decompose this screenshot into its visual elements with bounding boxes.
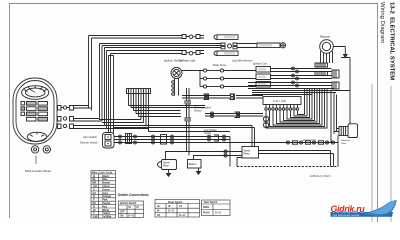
svg-text:для любителей техники: для любителей техники [333,214,360,217]
svg-text:Ignition Switch: Ignition Switch [120,202,137,205]
relay block 2 [256,74,271,80]
wire color code text [92,170,113,218]
meter connector row1 [58,106,92,111]
svg-text:PUSH: PUSH [203,213,210,215]
magneto connector comb 2 [332,70,339,89]
svg-text:Dimmer Switch: Dimmer Switch [80,141,98,145]
starter button table [202,200,231,216]
svg-text:Purple: Purple [102,201,111,205]
svg-text:OFF: OFF [120,211,125,213]
fuse 2 [200,71,256,87]
inline connector b [126,134,132,144]
ignition lead connectors [172,81,175,96]
svg-text:Ignition Coil: Ignition Coil [253,62,267,66]
svg-text:Valve: Valve [341,143,347,145]
headlight lamp row1 [214,35,238,40]
ignition switch table [119,201,144,218]
svg-text:Orange: Orange [102,194,112,198]
ignition coil row [230,141,338,144]
svg-text:G: G [93,187,95,191]
brake switch connectors on wires [208,135,226,141]
svg-text:13-2 ELECTRICAL SYSTEM: 13-2 ELECTRICAL SYSTEM [389,2,395,80]
solenoid valve body [348,124,358,138]
svg-text:M: M [137,207,139,209]
svg-text:Red: Red [102,204,107,208]
ignition switch [171,68,182,96]
svg-text:Y: Y [93,211,95,215]
ignition feed pair down [185,88,191,156]
harness fan wires [99,106,230,132]
svg-text:Solenoid: Solenoid [341,140,350,142]
svg-text:ON: ON [120,216,124,218]
svg-text:BL: BL [93,177,97,181]
inline connector a [119,135,122,144]
svg-text:Sensor: Sensor [194,109,202,112]
bundle drops to solenoid [331,91,339,143]
cdi pins [265,105,299,111]
svg-text:B: B [93,174,95,178]
fuse 3 [200,85,256,88]
svg-text:O—O: O—O [128,216,134,218]
svg-text:IG: IG [129,207,132,209]
svg-text:Ignition Switch: Ignition Switch [164,59,182,63]
svg-text:Diode Switch: Diode Switch [168,201,183,204]
meter connector row3 [58,124,108,129]
battery [188,160,202,169]
label oil temp sensor [194,107,212,113]
taillight lamp row3 [214,51,238,56]
svg-text:Blue: Blue [102,177,108,181]
svg-text:Switch: Switch [204,132,212,135]
svg-text:O—O: O—O [179,215,185,217]
speedometer gauge [22,86,49,100]
wire bus top-left corner bundle [89,36,222,134]
svg-text:Switch Connections: Switch Connections [118,193,149,197]
svg-text:O—O: O—O [215,213,221,215]
starter wiring [166,136,339,167]
svg-text:R: R [93,204,95,208]
relay block 1 [256,67,271,73]
pilot bulbs [31,146,50,153]
svg-text:PU: PU [93,201,97,205]
starter relay [242,147,259,159]
connector group row3 [182,51,204,56]
oil sensor connector row lower [205,112,263,118]
svg-text:Main Fuse: Main Fuse [213,63,227,67]
svg-text:Magneto: Magneto [320,35,331,39]
svg-text:Yel/Wht: Yel/Wht [102,215,112,219]
connector group row2 [221,43,257,49]
oil temp sensor connector row upper [182,94,263,100]
svg-text:CH: CH [93,184,97,188]
svg-text:Horn Switch: Horn Switch [83,135,98,139]
meter pointer line [35,156,37,165]
speed sensor row2 [257,43,286,48]
indicator lamp grid [21,102,48,122]
svg-text:BR: BR [93,181,97,185]
meter connector row2 [58,117,103,122]
fuel gauge [27,132,46,141]
mid harness wires to magneto [248,69,334,89]
inline connector e [161,135,174,145]
svg-text:LO: LO [179,206,182,208]
svg-text:Relay: Relay [244,154,251,156]
svg-text:HI: HI [168,206,171,208]
label solenoid valve [341,140,350,145]
svg-text:EJB011(1) DWG: EJB011(1) DWG [310,174,331,178]
svg-text:Multi-function Meter: Multi-function Meter [25,169,51,173]
starter motor ground [167,170,171,177]
svg-text:Black: Black [102,174,109,178]
svg-text:Brown: Brown [102,181,110,185]
inline connector c [134,135,137,144]
svg-text:Starter: Starter [244,150,251,153]
svg-text:C.D.I. Unit: C.D.I. Unit [273,99,286,103]
wire pair down to relay [252,126,255,147]
svg-text:Battery: Battery [189,163,198,166]
svg-text:Wire Color Code: Wire Color Code [92,170,113,174]
svg-text:Choco: Choco [102,184,110,188]
svg-text:Pink: Pink [102,198,108,202]
svg-text:GY: GY [93,191,97,195]
relay block 3 [256,82,271,88]
svg-text:Wiring Diagram: Wiring Diagram [379,2,385,43]
connector group row1 (front lamp leads) [182,35,204,39]
svg-text:FREE: FREE [203,207,210,209]
svg-text:O: O [93,194,95,198]
switch output wires [113,126,255,143]
svg-text:Motor: Motor [163,165,169,168]
horn dimmer switch housing [103,133,115,149]
svg-text:Gray: Gray [102,191,108,195]
magneto leads [321,47,351,124]
bibik logo swoosh [331,200,397,217]
svg-text:Starter: Starter [163,162,170,165]
svg-text:Start Switch: Start Switch [204,201,218,204]
harness comb connector [127,89,151,132]
svg-text:Yellow: Yellow [102,211,111,215]
cdi top bus [252,91,350,95]
svg-text:P: P [93,198,95,202]
svg-text:LO: LO [157,215,160,217]
wire color code table [91,171,116,219]
dimmer switch table [155,200,200,218]
svg-text:Green: Green [102,187,110,191]
inline connector d [152,135,155,144]
svg-text:Gidrik.ru: Gidrik.ru [331,204,366,214]
svg-text:HI: HI [157,211,160,213]
svg-text:Lead Wire Harness: Lead Wire Harness [232,60,253,63]
svg-text:Y/W: Y/W [93,215,98,219]
starter motor [158,160,177,170]
fuse 1 [182,69,256,72]
svg-text:White: White [102,208,110,212]
label front brake switch [204,129,217,135]
magneto [320,40,334,54]
magneto connector comb 1 [315,63,328,76]
instrument pod outer shell [13,78,57,144]
flasher relay below cdi [263,116,268,127]
battery ground [197,168,201,174]
svg-text:O—O: O—O [168,211,174,213]
mid harness connectors [292,67,299,87]
cdi harness fan [266,89,327,128]
solenoid valve comb connector [339,127,348,136]
cdi unit [263,97,301,105]
